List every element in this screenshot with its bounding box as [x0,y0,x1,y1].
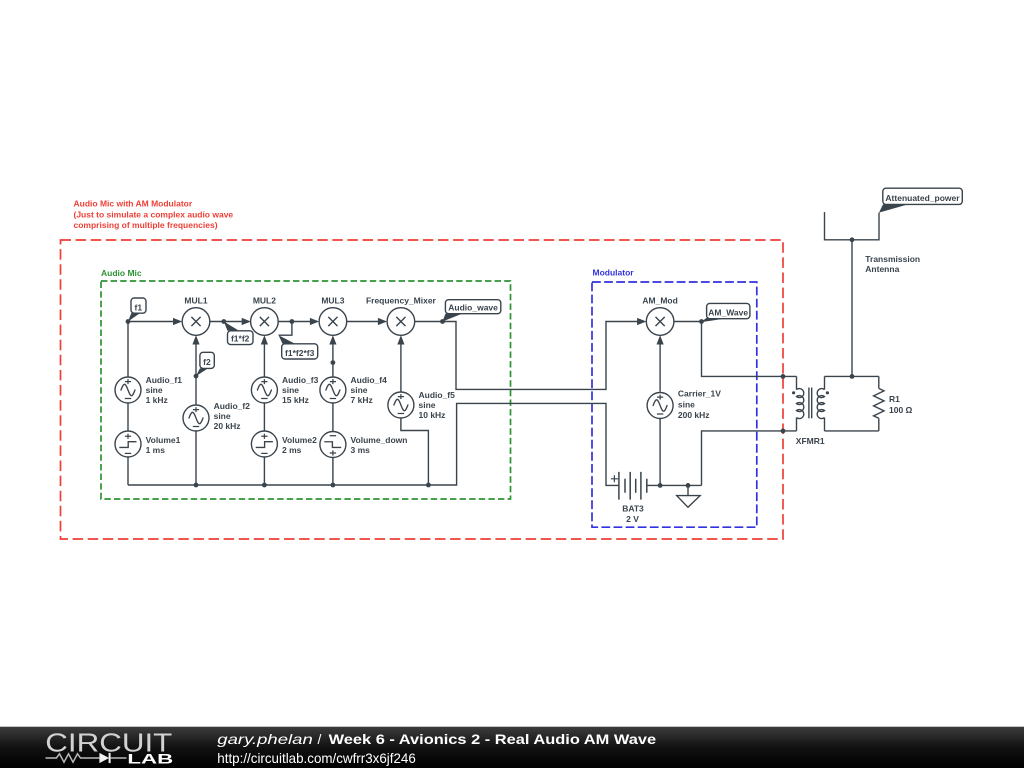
svg-text:Carrier_1V: Carrier_1V [678,389,721,399]
node f2 anchor dot [194,374,199,379]
wire: Carrier_1V to battery bus [659,419,661,486]
svg-text:Audio_f4: Audio_f4 [351,375,388,385]
svg-text:Volume2: Volume2 [282,435,317,445]
wire: Audio_f5 bottom to bus [401,418,429,485]
wire: bottom bus of Audio Mic [128,403,619,485]
multiplier MUL3 [319,308,347,336]
node f1 junction dot [126,319,131,324]
svg-text:f1*f2: f1*f2 [231,334,250,344]
svg-text:f1*f2*f3: f1*f2*f3 [285,348,315,358]
op-amp-style multiplier MUL1 [182,308,210,336]
arrow into MUL3 bottom [329,335,336,344]
svg-text:Audio_f1: Audio_f1 [146,375,183,385]
svg-text:Week 6 - Avionics 2 - Real Aud: Week 6 - Avionics 2 - Real Audio AM Wave [329,731,657,747]
wire: secondary bottom to R1 [825,430,879,432]
flag f1*f2*f3 [279,335,318,359]
resistor R1 [874,376,884,431]
svg-text:LAB: LAB [127,751,173,767]
svg-text:Antenna: Antenna [865,264,899,274]
source Carrier_1V [647,393,673,419]
wire: Frequency_Mixer bottom input from Audio_f5 [400,344,402,392]
node Audio_wave anchor dot [440,319,445,324]
transformer phase dots [792,391,795,394]
arrow into MUL3 [310,318,319,325]
flag AM_Wave [701,303,750,322]
wire: antenna stem [851,240,853,377]
source Audio_f2 [183,405,209,431]
wire: Volume_down to bus [332,458,334,486]
arrow into AM_Mod bottom [657,335,664,344]
svg-text:Transmission: Transmission [865,254,920,264]
svg-text:http://circuitlab.com/cwfrr3x6: http://circuitlab.com/cwfrr3x6jf246 [217,751,415,766]
svg-text:gary.phelan: gary.phelan [217,731,313,747]
multiplier MUL2 [251,308,279,336]
wire: MUL2 to MUL3 [278,321,317,323]
wire: Audio_f4 to Volume_down [332,403,334,432]
wire: MUL1 to MUL2 [210,321,249,323]
svg-text:sine: sine [351,385,368,395]
svg-text:sine: sine [146,385,163,395]
node AM_Wave anchor dot [699,319,704,324]
svg-text:f2: f2 [203,357,211,367]
source Volume1 [115,431,141,457]
wire: Volume1 to ground bus [127,457,129,485]
svg-text:Audio Mic with AM Modulator: Audio Mic with AM Modulator [74,199,193,209]
source Audio_f1 [115,377,141,403]
source Volume2 [251,431,277,457]
wire: battery to ground and right riser [647,484,702,486]
wire: Audio_f1 to Volume1 [127,403,129,431]
arrow into MUL1 bottom [192,335,199,344]
wire: Audio_f2 to bus [195,431,197,485]
antenna top wire [825,212,880,240]
wire: Audio_f3 to Volume2 [263,403,265,431]
blue dashed group box [592,282,757,527]
svg-text:Audio_f5: Audio_f5 [419,390,456,400]
svg-text:Attenuated_power: Attenuated_power [885,193,960,203]
multiplier AM_Mod [646,308,674,336]
svg-text:Audio_wave: Audio_wave [448,303,498,313]
svg-text:(Just to simulate a complex au: (Just to simulate a complex audio wave [74,209,234,219]
junction dot antenna tap [850,374,855,379]
svg-text:f1: f1 [135,302,143,312]
svg-text:MUL3: MUL3 [321,296,344,306]
svg-text:AM_Mod: AM_Mod [642,296,677,306]
svg-text:Volume_down: Volume_down [351,435,408,445]
svg-text:Audio_f3: Audio_f3 [282,375,319,385]
junction dot below Carrier [658,483,663,488]
svg-text:3 ms: 3 ms [351,445,371,455]
svg-text:MUL2: MUL2 [253,296,276,306]
arrow into AM_Mod [637,318,646,325]
source Audio_f4 [320,377,346,403]
svg-text:200 kHz: 200 kHz [678,410,710,420]
svg-text:Audio Mic: Audio Mic [101,268,142,278]
svg-text:MUL1: MUL1 [184,296,207,306]
ground [677,485,700,507]
arrow into MUL1 [173,318,182,325]
svg-text:sine: sine [214,411,231,421]
junction dot at ground [686,483,691,488]
wire: riser to transformer bottom [702,431,797,486]
node dot on primary bottom [781,429,786,434]
node junction dot above Audio_f4 [331,360,336,365]
wire: f1 node to MUL1 input [128,321,180,323]
wire: mixer output to modulator input (Audio_wave net) [415,322,645,390]
logo resistor zigzag [46,754,100,762]
svg-text:15 kHz: 15 kHz [282,395,309,405]
battery BAT3 [611,472,647,500]
svg-text:1 kHz: 1 kHz [146,395,168,405]
wire: AM_Mod output [674,322,797,377]
wire: MUL3 bottom input [332,344,334,377]
transformer XFMR1 [797,376,825,431]
source Audio_f3 [251,377,277,403]
junction dots on bus [194,483,199,488]
wire: MUL2 bottom input [263,344,265,377]
arrow into Frequency_Mixer bottom [397,335,404,344]
wire: Volume2 to bus [263,457,265,485]
svg-text:Audio_f2: Audio_f2 [214,401,251,411]
green dashed group box [101,281,511,499]
svg-text:2 V: 2 V [626,514,639,524]
wire: secondary top to R1 [825,375,879,377]
flag f2 [196,352,214,376]
wire: MUL3 to Frequency_Mixer [347,321,386,323]
svg-text:Modulator: Modulator [593,268,635,278]
svg-text:BAT3: BAT3 [622,504,644,514]
svg-text:10 kHz: 10 kHz [419,410,446,420]
red dashed group box [61,240,784,539]
svg-text:comprising of multiple frequen: comprising of multiple frequencies) [74,220,218,230]
svg-text:100 Ω: 100 Ω [889,405,913,415]
source Volume_down [320,432,346,458]
svg-text:/: / [318,731,322,747]
svg-text:20 kHz: 20 kHz [214,421,241,431]
wire: f2 to Audio_f2 [195,376,197,405]
wire: Carrier_1V to AM_Mod bottom input [659,344,661,392]
wire: stub to flag f1*f2*f3 [279,322,292,336]
svg-text:2 ms: 2 ms [282,445,302,455]
wire: MUL1 bottom input [195,344,197,376]
svg-text:Frequency_Mixer: Frequency_Mixer [366,296,437,306]
junction dot antenna [850,237,855,242]
svg-text:Volume1: Volume1 [146,435,181,445]
flag f1*f2 [224,322,253,345]
source Audio_f5 [388,392,414,418]
svg-text:1 ms: 1 ms [146,445,166,455]
flag Audio_wave [443,300,501,322]
svg-text:sine: sine [282,385,299,395]
svg-text:R1: R1 [889,394,900,404]
wire: f1 column down to Audio_f1 [127,322,129,378]
arrow into Frequency_Mixer [378,318,387,325]
node junction dot after MUL2 [290,319,295,324]
flag f1 [128,298,146,322]
svg-text:sine: sine [678,400,695,410]
svg-text:sine: sine [419,400,436,410]
arrow into MUL2 [242,318,251,325]
svg-text:XFMR1: XFMR1 [796,436,825,446]
multiplier Frequency_Mixer [387,308,415,336]
logo diode [99,753,109,763]
node junction dot f1*f2 [221,319,226,324]
arrow into MUL2 bottom [261,335,268,344]
node dot on primary top [781,374,786,379]
svg-text:7 kHz: 7 kHz [351,395,373,405]
flag Attenuated_power [879,188,962,212]
svg-text:AM_Wave: AM_Wave [708,307,748,317]
